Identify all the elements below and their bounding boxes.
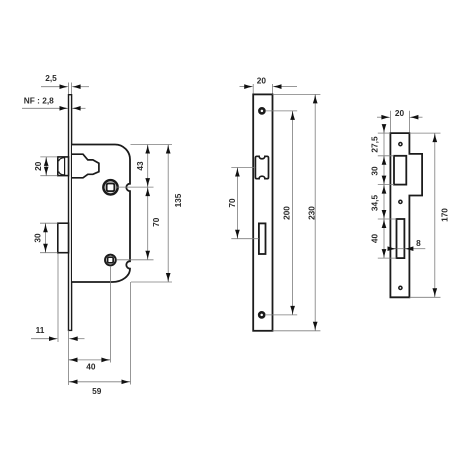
dimension 59 case depth xyxy=(69,379,131,396)
dimension 200 screw centres xyxy=(266,111,298,315)
svg-text:200: 200 xyxy=(281,206,291,220)
extension line follower axis bottom xyxy=(109,266,111,363)
svg-text:20: 20 xyxy=(257,76,267,86)
svg-text:40: 40 xyxy=(86,362,96,372)
svg-text:70: 70 xyxy=(227,198,237,208)
dimension 20 strike width xyxy=(377,108,423,120)
screw hole bottom xyxy=(259,312,264,317)
dimension 230 plate height xyxy=(273,94,321,330)
extension line case bottom xyxy=(131,281,172,283)
faceplate (side view) xyxy=(69,95,72,331)
extension line upper follower axis xyxy=(117,186,154,188)
privacy follower lower xyxy=(105,255,116,266)
svg-text:8: 8 xyxy=(416,238,421,248)
svg-text:43: 43 xyxy=(135,161,145,171)
latch bolt tail inside case xyxy=(72,154,99,178)
dimension 20 latch height xyxy=(33,157,58,176)
strike deadbolt opening xyxy=(397,219,405,258)
dimension 40 backset xyxy=(69,358,111,372)
extension line case back bottom xyxy=(130,282,132,385)
strike latch opening xyxy=(394,156,406,185)
extension line case top xyxy=(131,144,173,146)
dimension 135 case height xyxy=(166,145,183,283)
dimension chain 27,5 30 34,5 40 xyxy=(370,124,387,258)
svg-text:59: 59 xyxy=(92,386,102,396)
lock case outline xyxy=(72,145,130,283)
extension line faceplate bottom xyxy=(68,330,70,385)
dimension 70 latch to bolt xyxy=(227,168,259,239)
svg-text:170: 170 xyxy=(439,208,449,222)
deadbolt block outside faceplate xyxy=(58,223,69,253)
strike top extension lines xyxy=(390,111,409,133)
svg-text:40: 40 xyxy=(370,234,380,244)
svg-text:30: 30 xyxy=(370,166,380,176)
extension line lower follower axis xyxy=(117,259,154,261)
latch opening xyxy=(255,156,268,178)
spindle follower upper xyxy=(103,180,117,194)
front faceplate xyxy=(253,94,272,330)
svg-text:34,5: 34,5 xyxy=(370,195,380,212)
svg-text:230: 230 xyxy=(307,206,317,220)
dimension 70 left view xyxy=(145,187,161,260)
screw hole top xyxy=(259,108,264,113)
svg-text:11: 11 xyxy=(36,325,45,335)
svg-text:20: 20 xyxy=(33,161,43,171)
dimension 2,5 faceplate thickness xyxy=(41,73,89,89)
dimension 20 faceplate width xyxy=(240,76,298,89)
dimension 170 strike height xyxy=(409,133,449,297)
dimension NF : 2,8 xyxy=(22,96,86,111)
svg-text:30: 30 xyxy=(32,233,42,243)
dimension 8 bolt slot width xyxy=(388,238,426,251)
strike screw hole middle xyxy=(399,200,402,203)
front faceplate top extension lines xyxy=(253,84,272,95)
svg-text:20: 20 xyxy=(395,108,405,118)
svg-text:70: 70 xyxy=(151,217,161,227)
dimension 43 xyxy=(135,145,150,188)
chain tick extension lines xyxy=(378,133,397,258)
latch bolt head outside faceplate xyxy=(58,157,69,176)
strike plate outline xyxy=(390,133,422,297)
dimension 30 deadbolt height xyxy=(32,223,57,253)
deadbolt opening xyxy=(259,223,266,254)
svg-text:135: 135 xyxy=(173,193,183,207)
svg-text:27,5: 27,5 xyxy=(370,136,380,153)
faceplate top extension lines xyxy=(69,83,72,96)
svg-text:2,5: 2,5 xyxy=(45,73,57,83)
dimension 11 bolt throw xyxy=(31,325,85,341)
strike screw hole top xyxy=(399,143,402,146)
strike screw hole bottom xyxy=(399,286,402,289)
extension line deadbolt face xyxy=(57,254,59,343)
svg-text:NF : 2,8: NF : 2,8 xyxy=(24,96,54,106)
